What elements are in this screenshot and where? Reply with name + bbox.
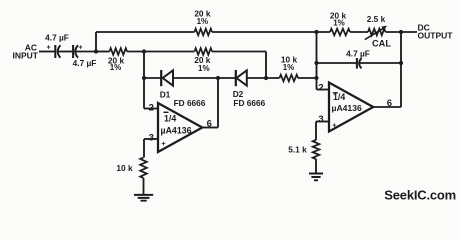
wire: R7 to ground (143, 178, 145, 195)
rheostat R6 arrow (365, 28, 384, 39)
wire: diode row D1 to D2 (173, 77, 236, 79)
svg-text:4.7 µF: 4.7 µF (73, 58, 97, 68)
svg-text:6: 6 (207, 119, 212, 130)
svg-text:1%: 1% (333, 19, 345, 28)
svg-text:1%: 1% (197, 17, 209, 26)
svg-text:10 k: 10 k (116, 163, 133, 173)
node dot cap row right (399, 61, 403, 65)
node dot D1-D2 junction (216, 76, 220, 80)
svg-text:4.7 µF: 4.7 µF (346, 49, 370, 59)
svg-text:+: + (161, 139, 166, 148)
diode D1 triangle (163, 70, 173, 85)
resistor R2 20k 1% (series input) (110, 48, 128, 55)
capacitor C3 curved plate (359, 58, 361, 68)
node dot corner junction (264, 76, 268, 80)
diode D2 cathode bar (235, 70, 237, 86)
wire: diode row D2 to R4 (247, 77, 280, 79)
wire: feedback cap row left (317, 62, 357, 64)
wire: C2 to node N1 (75, 51, 96, 53)
svg-text:3: 3 (318, 114, 323, 125)
wire: R3 right to corner (212, 51, 266, 53)
wire: corner down to diode row (265, 52, 267, 79)
wire: R8 to ground (315, 159, 317, 173)
svg-text:1/4: 1/4 (333, 92, 345, 102)
svg-text:+: + (78, 44, 82, 51)
node dot N2 (142, 49, 146, 53)
svg-text:6: 6 (387, 98, 392, 109)
ground G1 (134, 195, 153, 201)
svg-text:FD 6666: FD 6666 (233, 98, 265, 108)
capacitor C3 4.7uF bar plate (356, 58, 358, 69)
wire: op-amp U1 output riser up to diode row (217, 78, 219, 128)
capacitor C1 curved plate (58, 45, 61, 57)
ground G2 (309, 174, 323, 181)
wire: U1 pin 2 stub (144, 108, 158, 110)
resistor R8 5.1k (to ground) (313, 140, 320, 159)
resistor R4 10k 1% (280, 75, 299, 82)
node dot diode row left (142, 76, 146, 80)
wire: U1 pin 3 stub (144, 138, 158, 140)
wire: U2 output stub (373, 106, 401, 108)
svg-text:2: 2 (318, 83, 323, 94)
resistor R5 20k 1% (top right) (330, 29, 350, 36)
op-amp U2 triangle (329, 83, 373, 132)
svg-text:5.1 k: 5.1 k (288, 144, 307, 154)
wire: riser x316 from top row down to U2 pin 2 (316, 32, 318, 90)
node dot 10k row at riser (314, 76, 318, 80)
wire: CAL to DC output terminal (386, 31, 418, 33)
wire: output riser x401 (400, 32, 402, 107)
rheostat R6 arrowhead (381, 26, 387, 31)
svg-text:µA4136: µA4136 (332, 103, 362, 113)
svg-text:2.5 k: 2.5 k (367, 14, 386, 24)
capacitor C2 4.7uF (input, plus bar) (72, 45, 74, 58)
capacitor C2 curved plate (75, 45, 78, 57)
svg-text:1%: 1% (198, 64, 210, 73)
wire: R4 to riser x316 (298, 77, 317, 79)
svg-text:+: + (46, 44, 50, 51)
label U1 minus (164, 111, 169, 113)
wire: diode row from riser to D1 (144, 77, 161, 79)
svg-text:INPUT: INPUT (13, 50, 39, 60)
wire: R5 to R6 CAL (350, 31, 368, 33)
svg-text:SeekIC.com: SeekIC.com (384, 187, 456, 202)
svg-text:4.7 µF: 4.7 µF (45, 33, 69, 43)
node dot output top (399, 30, 403, 34)
wire: U2 pin 2 stub (317, 89, 330, 91)
svg-text:1/4: 1/4 (164, 114, 176, 124)
wire: U2 pin 3 down to R8 (315, 122, 317, 141)
resistor R7 10k (to ground) (140, 158, 147, 179)
resistor R1 20k 1% (top feedback) (195, 29, 213, 36)
wire: riser node N1 up to top feedback row (95, 32, 97, 52)
svg-text:OUTPUT: OUTPUT (418, 31, 454, 41)
svg-text:1%: 1% (283, 63, 295, 72)
svg-text:1%: 1% (110, 63, 122, 72)
wire: top row A from riser to R1 (96, 31, 195, 33)
wire: riser node N2 down to op-amp U1 pin 2 (143, 52, 145, 109)
wire: row B node N1 to R2 (96, 51, 110, 53)
svg-text:2: 2 (149, 102, 154, 113)
wire: R2 to node N2 to R3 (127, 51, 195, 53)
wire: U1 output stub (202, 127, 218, 129)
capacitor C1 4.7uF (input, plus bar) (54, 45, 56, 58)
node dot top row at riser (314, 30, 318, 34)
diode D2 triangle (237, 70, 247, 85)
svg-text:µA4136: µA4136 (161, 126, 192, 136)
svg-text:D1: D1 (160, 89, 171, 99)
node dot N1 (94, 49, 98, 53)
svg-text:3: 3 (149, 133, 154, 144)
rheostat R6 2.5k CAL (368, 29, 386, 36)
svg-text:CAL: CAL (372, 39, 391, 49)
wire: U1 pin 3 down to R7 (143, 139, 145, 158)
svg-text:FD 6666: FD 6666 (174, 98, 206, 108)
diode D1 cathode bar (160, 70, 162, 86)
wire: top row A from R1 to R5 (212, 31, 330, 33)
label U2 minus (333, 92, 338, 94)
op-amp U1 triangle (158, 103, 202, 152)
svg-text:+: + (332, 120, 337, 129)
wire: U2 pin 3 stub (316, 121, 329, 123)
wire: feedback cap row right (359, 62, 401, 64)
node dot cap row left (314, 61, 318, 65)
wire: between C1 and C2 (58, 51, 72, 53)
resistor R3 20k 1% (row B second) (195, 48, 213, 55)
wire: AC input lead (39, 51, 54, 53)
